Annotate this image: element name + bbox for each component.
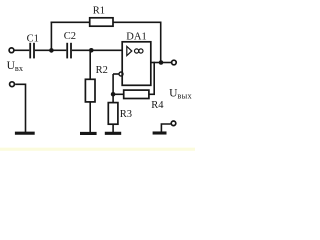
svg-text:R1: R1: [93, 5, 105, 16]
wire R4 up to output wire: [153, 62, 155, 95]
ground bar lower-left: [15, 132, 35, 135]
svg-text:DA1: DA1: [126, 31, 146, 42]
svg-text:C1: C1: [27, 33, 39, 44]
wire down to node C: [112, 74, 114, 94]
wire input to C1: [14, 49, 29, 51]
capacitor C1: [30, 43, 34, 59]
lower-left terminal: [10, 82, 15, 87]
wire R3 to ground: [112, 124, 114, 132]
wire R4 right: [149, 93, 155, 95]
lower-right terminal: [171, 121, 176, 126]
wire R2 to ground: [89, 102, 91, 132]
wire node B to op-amp noninverting input: [91, 49, 122, 51]
ground bar for R2: [80, 132, 97, 135]
svg-text:R2: R2: [96, 65, 108, 76]
wire C1 to node A: [35, 49, 52, 51]
wire node C down to R3: [112, 94, 114, 103]
wire to R1 left: [51, 21, 90, 23]
resistor R4: [124, 90, 149, 98]
wire node A to C2: [51, 49, 66, 51]
op-amp infinity symbol: [135, 49, 143, 53]
wire inverting input left: [113, 73, 119, 75]
resistor R2: [85, 79, 95, 102]
wire node B down to R2: [89, 50, 91, 79]
wire to output terminal: [161, 62, 171, 64]
decorative bottom band: [0, 148, 195, 151]
node A junction dot: [49, 48, 54, 53]
node B junction dot: [89, 48, 94, 53]
op-amp U1 (DA1) body: [122, 42, 151, 86]
svg-text:C2: C2: [64, 31, 76, 42]
capacitor C2: [67, 43, 71, 59]
ground bar for R3: [105, 132, 121, 135]
svg-text:R4: R4: [151, 100, 164, 111]
wire node C to R4: [113, 93, 124, 95]
wire C2 to node B: [72, 49, 91, 51]
op-amp inverting input circle: [119, 72, 123, 76]
resistor R1: [90, 18, 113, 26]
wire from lower-right terminal: [161, 124, 170, 132]
output terminal (Uвых): [172, 60, 177, 65]
node C junction dot: [111, 92, 116, 97]
wire node A up to R1 row: [50, 22, 52, 51]
ground bar lower-right: [153, 131, 167, 134]
resistor R3: [108, 103, 118, 125]
op-amp output wire: [151, 62, 161, 64]
input terminal (Uвх): [9, 48, 14, 53]
wire down to output node: [160, 22, 162, 62]
output node dot: [159, 60, 164, 65]
op-amp gain triangle: [127, 46, 132, 55]
wire from lower-left terminal: [15, 84, 25, 132]
svg-text:R3: R3: [120, 109, 132, 120]
wire R1 right to top-right corner: [113, 21, 162, 23]
